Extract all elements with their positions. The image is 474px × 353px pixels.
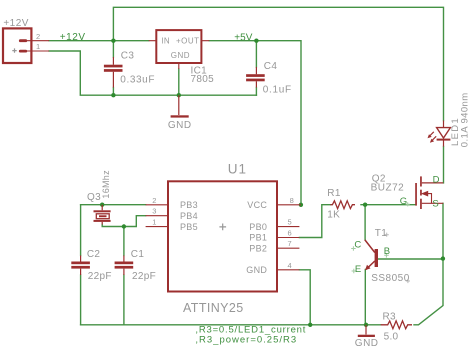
svg-text:0.1A 940nm: 0.1A 940nm: [459, 92, 470, 147]
svg-text:GND: GND: [168, 120, 192, 131]
svg-text:BUZ72: BUZ72: [371, 183, 405, 194]
svg-text:2: 2: [152, 196, 156, 205]
svg-text:T1: T1: [375, 228, 387, 239]
svg-text:GND: GND: [171, 51, 190, 60]
svg-text:S: S: [432, 198, 438, 209]
svg-text:G: G: [400, 196, 407, 207]
svg-text:PB2: PB2: [249, 243, 267, 253]
svg-text:5: 5: [288, 218, 292, 227]
svg-text:PB5: PB5: [180, 222, 198, 232]
svg-text:C3: C3: [121, 50, 135, 61]
svg-text:5.0: 5.0: [384, 331, 399, 342]
svg-text:22pF: 22pF: [88, 271, 112, 282]
svg-text:+12V: +12V: [3, 18, 28, 29]
svg-text:1: 1: [152, 218, 156, 227]
svg-text:1: 1: [36, 42, 40, 51]
svg-text:3: 3: [152, 207, 156, 216]
svg-text:,R3_power=0.25/R3: ,R3_power=0.25/R3: [195, 335, 297, 346]
svg-text:IN: IN: [161, 37, 170, 46]
svg-text:GND: GND: [355, 338, 379, 349]
svg-text:Q3: Q3: [87, 192, 101, 203]
svg-text:PB1: PB1: [249, 233, 267, 243]
svg-text:E: E: [355, 264, 361, 275]
svg-text:U1: U1: [228, 162, 247, 177]
svg-text:R1: R1: [327, 188, 341, 199]
svg-text:7: 7: [288, 239, 292, 248]
svg-text:SS8050: SS8050: [371, 273, 410, 284]
svg-text:0.1uF: 0.1uF: [263, 84, 292, 95]
svg-text:R3: R3: [383, 312, 397, 323]
svg-text:+OUT: +OUT: [176, 37, 200, 46]
svg-text:4: 4: [288, 261, 292, 270]
svg-text:0.33uF: 0.33uF: [120, 74, 155, 85]
svg-text:+12V: +12V: [60, 32, 86, 43]
svg-text:16Mhz: 16Mhz: [101, 170, 111, 199]
svg-text:GND: GND: [246, 265, 267, 275]
svg-text:D: D: [433, 174, 440, 185]
svg-text:PB4: PB4: [180, 211, 198, 221]
svg-text:B: B: [384, 246, 390, 257]
svg-text:C4: C4: [264, 61, 278, 72]
svg-text:1K: 1K: [327, 210, 340, 221]
svg-text:PB0: PB0: [249, 222, 267, 232]
svg-text:+5V: +5V: [234, 32, 252, 43]
svg-text:2: 2: [36, 32, 40, 41]
svg-text:C2: C2: [87, 249, 101, 260]
svg-text:ATTINY25: ATTINY25: [183, 301, 244, 315]
svg-text:VCC: VCC: [247, 200, 267, 210]
svg-text:22pF: 22pF: [132, 271, 156, 282]
svg-text:C1: C1: [131, 249, 145, 260]
svg-text:PB3: PB3: [180, 200, 198, 210]
svg-text:C: C: [354, 240, 361, 251]
svg-text:6: 6: [288, 229, 292, 238]
svg-text:8: 8: [290, 196, 294, 205]
svg-text:7805: 7805: [191, 74, 215, 85]
